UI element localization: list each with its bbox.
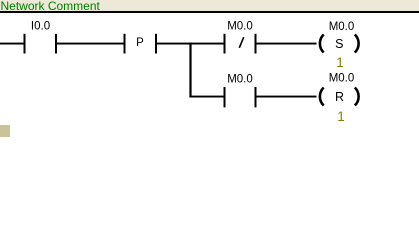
branch wire down to second rung xyxy=(189,43,191,98)
contact I0.0 xyxy=(24,34,58,54)
label P xyxy=(136,37,144,49)
next network corner block xyxy=(0,125,10,137)
label I0.0 xyxy=(31,20,50,32)
wire contact I0.0 to contact P xyxy=(57,43,124,45)
label M0.0 (NO contact) xyxy=(227,74,253,86)
contact M0.0 normally-open (second rung) xyxy=(224,87,257,107)
header text xyxy=(1,1,100,12)
header underline xyxy=(0,11,419,13)
wire left rail to contact I0.0 xyxy=(0,43,24,45)
svg-text:1: 1 xyxy=(337,109,345,124)
value 1 (coil R operand) xyxy=(337,109,345,124)
svg-text:M0.0: M0.0 xyxy=(227,20,253,32)
svg-text:M0.0: M0.0 xyxy=(329,73,355,85)
svg-text:R: R xyxy=(335,90,344,104)
label M0.0 (coil S) xyxy=(329,21,355,33)
contact M0.0 normally-closed xyxy=(224,34,257,54)
network comment header bar xyxy=(0,0,419,11)
svg-text:S: S xyxy=(335,37,343,51)
wire second rung from branch to contact M0.0 xyxy=(189,96,223,98)
contact P (positive edge) xyxy=(124,34,158,54)
svg-text:M0.0: M0.0 xyxy=(329,21,355,33)
coil S xyxy=(320,35,359,53)
label M0.0 (NC contact) xyxy=(227,20,253,32)
wire contact M0.0 to coil R xyxy=(257,96,317,98)
svg-text:P: P xyxy=(136,37,144,49)
value 1 (coil S operand) xyxy=(336,55,344,70)
label M0.0 (coil R) xyxy=(329,73,355,85)
coil R xyxy=(320,88,359,106)
svg-text:I0.0: I0.0 xyxy=(31,20,50,32)
svg-text:1: 1 xyxy=(336,55,344,70)
wire contact P to contact M0.0 NC (through branch node) xyxy=(157,43,224,45)
svg-text:M0.0: M0.0 xyxy=(227,74,253,86)
wire contact M0.0 NC to coil S xyxy=(257,43,317,45)
